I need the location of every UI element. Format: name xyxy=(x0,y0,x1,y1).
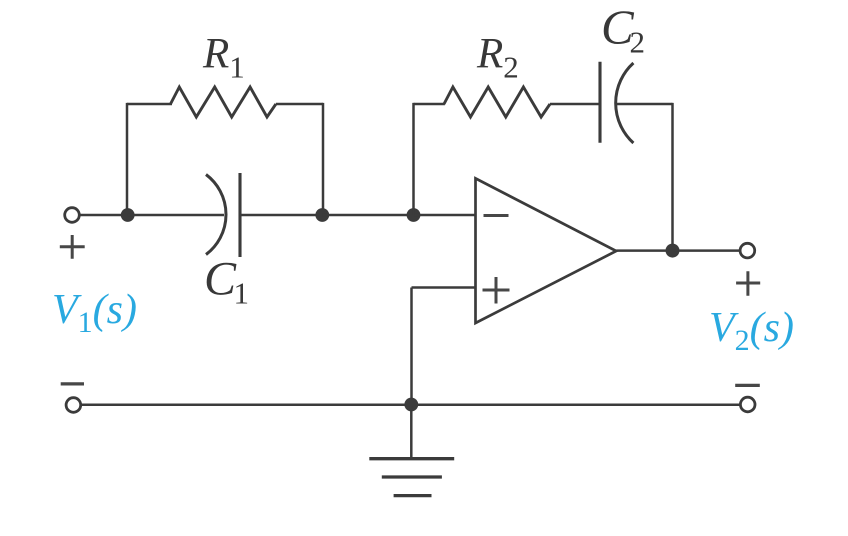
polarity plus under input terminal xyxy=(60,235,85,259)
wire: node C to op-amp inverting input xyxy=(414,214,477,217)
polarity minus above bottom-left terminal xyxy=(61,382,84,385)
wire: vertical drop from + input to ground rail xyxy=(410,288,413,405)
wire: bottom rail xyxy=(82,403,740,406)
wire: R2 to C2 left plate xyxy=(550,103,600,106)
resistor R2 xyxy=(444,87,550,117)
node D (output node) xyxy=(666,244,680,258)
polarity plus above V2 label xyxy=(736,271,760,296)
wire: top-right rail to R2 xyxy=(414,103,445,106)
node B (R1/C1 right junction) xyxy=(315,208,329,222)
op-amp U1 non-inverting mark xyxy=(483,277,510,304)
svg-text:V2(s): V2(s) xyxy=(709,305,794,357)
capacitor C2 straight plate xyxy=(598,62,601,143)
terminal: bottom-left xyxy=(66,398,81,413)
wire: top-left rail left segment xyxy=(127,103,172,106)
wire: C2 curved plate to top-right corner xyxy=(617,103,673,106)
ground symbol xyxy=(369,459,454,496)
wire: ground stem xyxy=(410,405,413,459)
op-amp U1 inverting mark xyxy=(484,214,509,217)
wire: left vertical drop from R1 left xyxy=(126,103,129,215)
terminal: output (right) xyxy=(740,243,755,258)
wire: vertical riser from node C to top-right rail xyxy=(412,103,415,215)
polarity minus above bottom-right terminal xyxy=(735,384,760,387)
wire: node D to output terminal xyxy=(673,249,741,252)
wire: C1 right plate to node B xyxy=(240,214,322,217)
resistor R1 xyxy=(171,87,276,117)
capacitor C1 curved plate xyxy=(206,175,226,255)
wire: node A to C1 left plate xyxy=(128,214,224,217)
svg-text:V1(s): V1(s) xyxy=(52,287,137,339)
node A (input node) xyxy=(121,208,135,222)
wire: right vertical drop from R1 right xyxy=(322,103,325,215)
wire: node B to node C xyxy=(322,214,413,217)
capacitor C1 straight plate xyxy=(238,173,241,257)
wire: top-left rail right segment xyxy=(276,103,323,106)
wire: input lead to node A xyxy=(80,214,129,217)
wire: non-inverting input lead xyxy=(412,286,477,289)
terminal: bottom-right xyxy=(740,397,755,412)
wire: vertical drop from C2 to output node xyxy=(671,103,674,251)
wire: op-amp output to node D xyxy=(616,249,672,252)
node E (ground rail node) xyxy=(404,398,418,412)
capacitor C2 curved plate xyxy=(616,63,634,143)
op-amp U1 triangle xyxy=(476,178,617,323)
terminal: input (top-left) xyxy=(65,208,80,223)
node C (inverting input node) xyxy=(407,208,421,222)
